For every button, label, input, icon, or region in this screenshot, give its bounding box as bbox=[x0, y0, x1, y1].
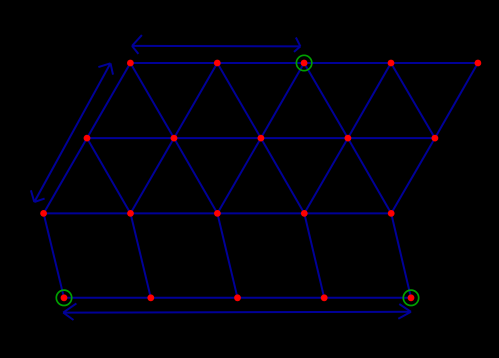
node row2n1 bbox=[84, 135, 91, 142]
wire: vertical bond row3n2 to row4n2 bbox=[131, 213, 151, 297]
node row1n3 bbox=[301, 60, 308, 67]
wire: down-left bond row1n4 to row2n4 bbox=[348, 63, 391, 138]
node row2n2 bbox=[171, 135, 178, 142]
node row4n4 bbox=[321, 294, 328, 301]
node row1n1 bbox=[127, 60, 134, 67]
node row3n4 bbox=[301, 210, 308, 217]
wire: down-left bond row1n3 to row2n3 bbox=[261, 63, 304, 138]
node row2n4 bbox=[345, 135, 352, 142]
node row1n5 bbox=[475, 60, 482, 67]
wire: row 1 horizontal line bbox=[130, 62, 478, 64]
marker circle around node row1n3 bbox=[296, 55, 311, 70]
wire: down-right bond row2n4 to row3n5 bbox=[348, 138, 391, 213]
node row4n5 bbox=[408, 294, 415, 301]
wire: vertical bond row3n1 to row4n1 bbox=[44, 213, 64, 297]
wire: down-right bond row1n3 to row2n4 bbox=[304, 63, 348, 138]
wire: row 3 horizontal line bbox=[44, 212, 392, 214]
wire: down-left bond row2n1 to row3n1 bbox=[44, 138, 87, 213]
node row3n1 bbox=[40, 210, 47, 217]
wire: row 4 horizontal line bbox=[64, 297, 411, 299]
node row2n3 bbox=[258, 135, 265, 142]
double-headed arrow: left slanted span bbox=[31, 63, 113, 202]
node row1n4 bbox=[388, 60, 395, 67]
marker circle around node row4n5 bbox=[403, 290, 418, 305]
node row4n3 bbox=[234, 294, 241, 301]
node row4n1 bbox=[61, 294, 68, 301]
wire: down-right bond row1n2 to row2n3 bbox=[217, 63, 261, 138]
wire: down-left bond row2n5 to row3n5 bbox=[391, 138, 435, 213]
wire: down-left bond row2n2 to row3n2 bbox=[131, 138, 175, 213]
node row4n2 bbox=[147, 294, 154, 301]
wire: vertical bond row3n5 to row4n5 bbox=[391, 213, 411, 297]
node row1n2 bbox=[214, 60, 221, 67]
wire: down-right bond row2n1 to row3n2 bbox=[87, 138, 131, 213]
wire: down-left bond row1n2 to row2n2 bbox=[174, 63, 217, 138]
wire: down-left bond row2n3 to row3n3 bbox=[217, 138, 261, 213]
wire: vertical bond row3n3 to row4n3 bbox=[217, 213, 237, 297]
wire: down-left bond row1n1 to row2n1 bbox=[87, 63, 130, 138]
marker circle around node row4n1 bbox=[56, 290, 71, 305]
double-headed arrow: top span (two lattice spacings) bbox=[132, 35, 300, 54]
node row2n5 bbox=[432, 135, 439, 142]
node row3n2 bbox=[127, 210, 134, 217]
wire: down-left bond row2n4 to row3n4 bbox=[304, 138, 348, 213]
wire: down-right bond row2n2 to row3n3 bbox=[174, 138, 217, 213]
node row3n3 bbox=[214, 210, 221, 217]
wire: down-right bond row1n1 to row2n2 bbox=[130, 63, 174, 138]
node row3n5 bbox=[388, 210, 395, 217]
wire: down-right bond row1n4 to row2n5 bbox=[391, 63, 435, 138]
double-headed arrow: bottom span bbox=[63, 303, 411, 320]
wire: down-right bond row2n3 to row3n4 bbox=[261, 138, 304, 213]
wire: row 2 horizontal line bbox=[87, 137, 435, 139]
wire: vertical bond row3n4 to row4n4 bbox=[304, 213, 324, 297]
wire: down-left bond row1n5 to row2n5 bbox=[435, 63, 478, 138]
